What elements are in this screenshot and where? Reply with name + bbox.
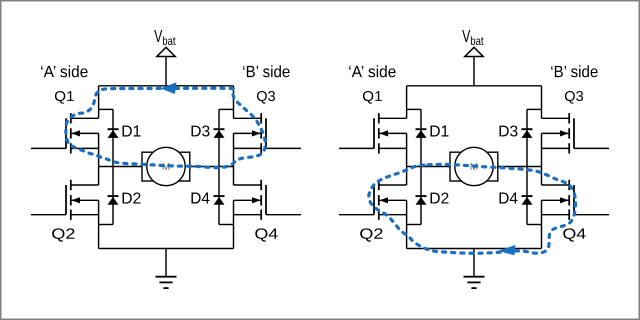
wire: node A to Q2 drain (left bridge) [98,167,100,186]
diode D1 [108,129,119,138]
wire: node A to motor (right bridge) [407,166,450,168]
wire: D3 branch (right bridge) [526,109,528,166]
transistor Q1 [31,113,99,154]
label Q4 [563,228,585,241]
diode D3 [522,129,533,138]
transistor Q2 [339,180,407,220]
supply V_bat (left bridge) [154,30,175,86]
label D2 [431,193,449,204]
label D3 [500,126,518,137]
current arrow (left bridge, on top rail, pointing left) [160,82,176,94]
label Q3 [257,91,275,104]
current path: low-side freewheel loop (right bridge) [369,164,576,253]
wire: D2 branch (left bridge) [112,167,114,225]
wire: Q3 source leg to node B (right bridge) [541,148,543,166]
label Q1 [363,91,382,104]
diode D4 [214,196,225,205]
wire: D4 branch (left bridge) [218,167,220,225]
wire: Q1 source leg to node A (left bridge) [98,148,100,166]
motor M (right bridge) [450,147,498,185]
supply V_bat (right bridge) [462,30,483,86]
wire: D2 anode tap (left bridge) [99,224,113,226]
label D3 [192,126,210,137]
wire: bottom rail (right bridge) [407,248,542,250]
wire: D4 anode tap (left bridge) [219,224,234,226]
label 'A' side (left bridge) [41,65,87,77]
wire: D3 cathode tap (right bridge) [527,108,542,110]
diode D2 [108,196,119,205]
wire: D2 anode tap (right bridge) [407,224,421,226]
wire: Q3 source leg to node B (left bridge) [233,148,235,166]
wire: Q1 source leg to node A (right bridge) [406,148,408,166]
wire: Q3 drain leg (right bridge) [541,86,543,119]
label D4 [500,193,518,204]
wire: Q3 drain leg (left bridge) [233,86,235,119]
transistor Q3 [542,113,610,154]
wire: D3 cathode tap (left bridge) [219,108,234,110]
wire: D1 cathode tap (left bridge) [99,108,113,110]
wire: motor to node B (right bridge) [498,166,542,168]
label 'B' side (right bridge) [551,65,597,77]
wire: motor to node B (left bridge) [190,166,234,168]
wire: Q1 drain leg (left bridge) [98,86,100,119]
wire: Q2 source leg (right bridge) [406,215,408,249]
label D1 [123,126,141,137]
wire: node B to Q4 drain (right bridge) [541,167,543,186]
label 'B' side (left bridge) [243,65,289,77]
wire: D1 branch (left bridge) [112,109,114,166]
wire: node A to Q2 drain (right bridge) [406,167,408,186]
ground (right bridge) [464,249,485,289]
wire: D4 anode tap (right bridge) [527,224,542,226]
wire: D4 branch (right bridge) [526,167,528,225]
transistor Q4 [234,180,302,220]
transistor Q4 [542,180,610,220]
current arrow (right bridge, on bottom rail, pointing left) [498,245,515,255]
transistor Q1 [339,113,407,154]
wire: top rail (left bridge) [99,85,234,87]
label Q1 [55,91,74,104]
transistor Q2 [31,180,99,220]
diode D1 [416,129,427,138]
wire: D1 cathode tap (right bridge) [407,108,421,110]
wire: node B to Q4 drain (left bridge) [233,167,235,186]
wire: D1 branch (right bridge) [420,109,422,166]
label D1 [431,126,449,137]
wire: node A to motor (left bridge) [99,166,142,168]
label 'A' side (right bridge) [349,65,395,77]
wire: D2 branch (right bridge) [420,167,422,225]
wire: Q4 source leg (left bridge) [233,215,235,249]
label Q2 [52,228,74,241]
wire: top rail (right bridge) [407,85,542,87]
wire: Q1 drain leg (right bridge) [406,86,408,119]
wire: bottom rail (left bridge) [99,248,234,250]
label Q3 [565,91,583,104]
label Q2 [360,228,382,241]
label D4 [192,193,210,204]
diode D3 [214,129,225,138]
wire: Q4 source leg (right bridge) [541,215,543,249]
diode D2 [416,196,427,205]
current path: high-side freewheel loop (left bridge) [66,88,266,167]
transistor Q3 [234,113,302,154]
motor M (left bridge) [142,147,190,185]
label Q4 [255,228,277,241]
wire: D3 branch (left bridge) [218,109,220,166]
label D2 [123,193,141,204]
wire: Q2 source leg (left bridge) [98,215,100,249]
ground (left bridge) [156,249,177,289]
diode D4 [522,196,533,205]
